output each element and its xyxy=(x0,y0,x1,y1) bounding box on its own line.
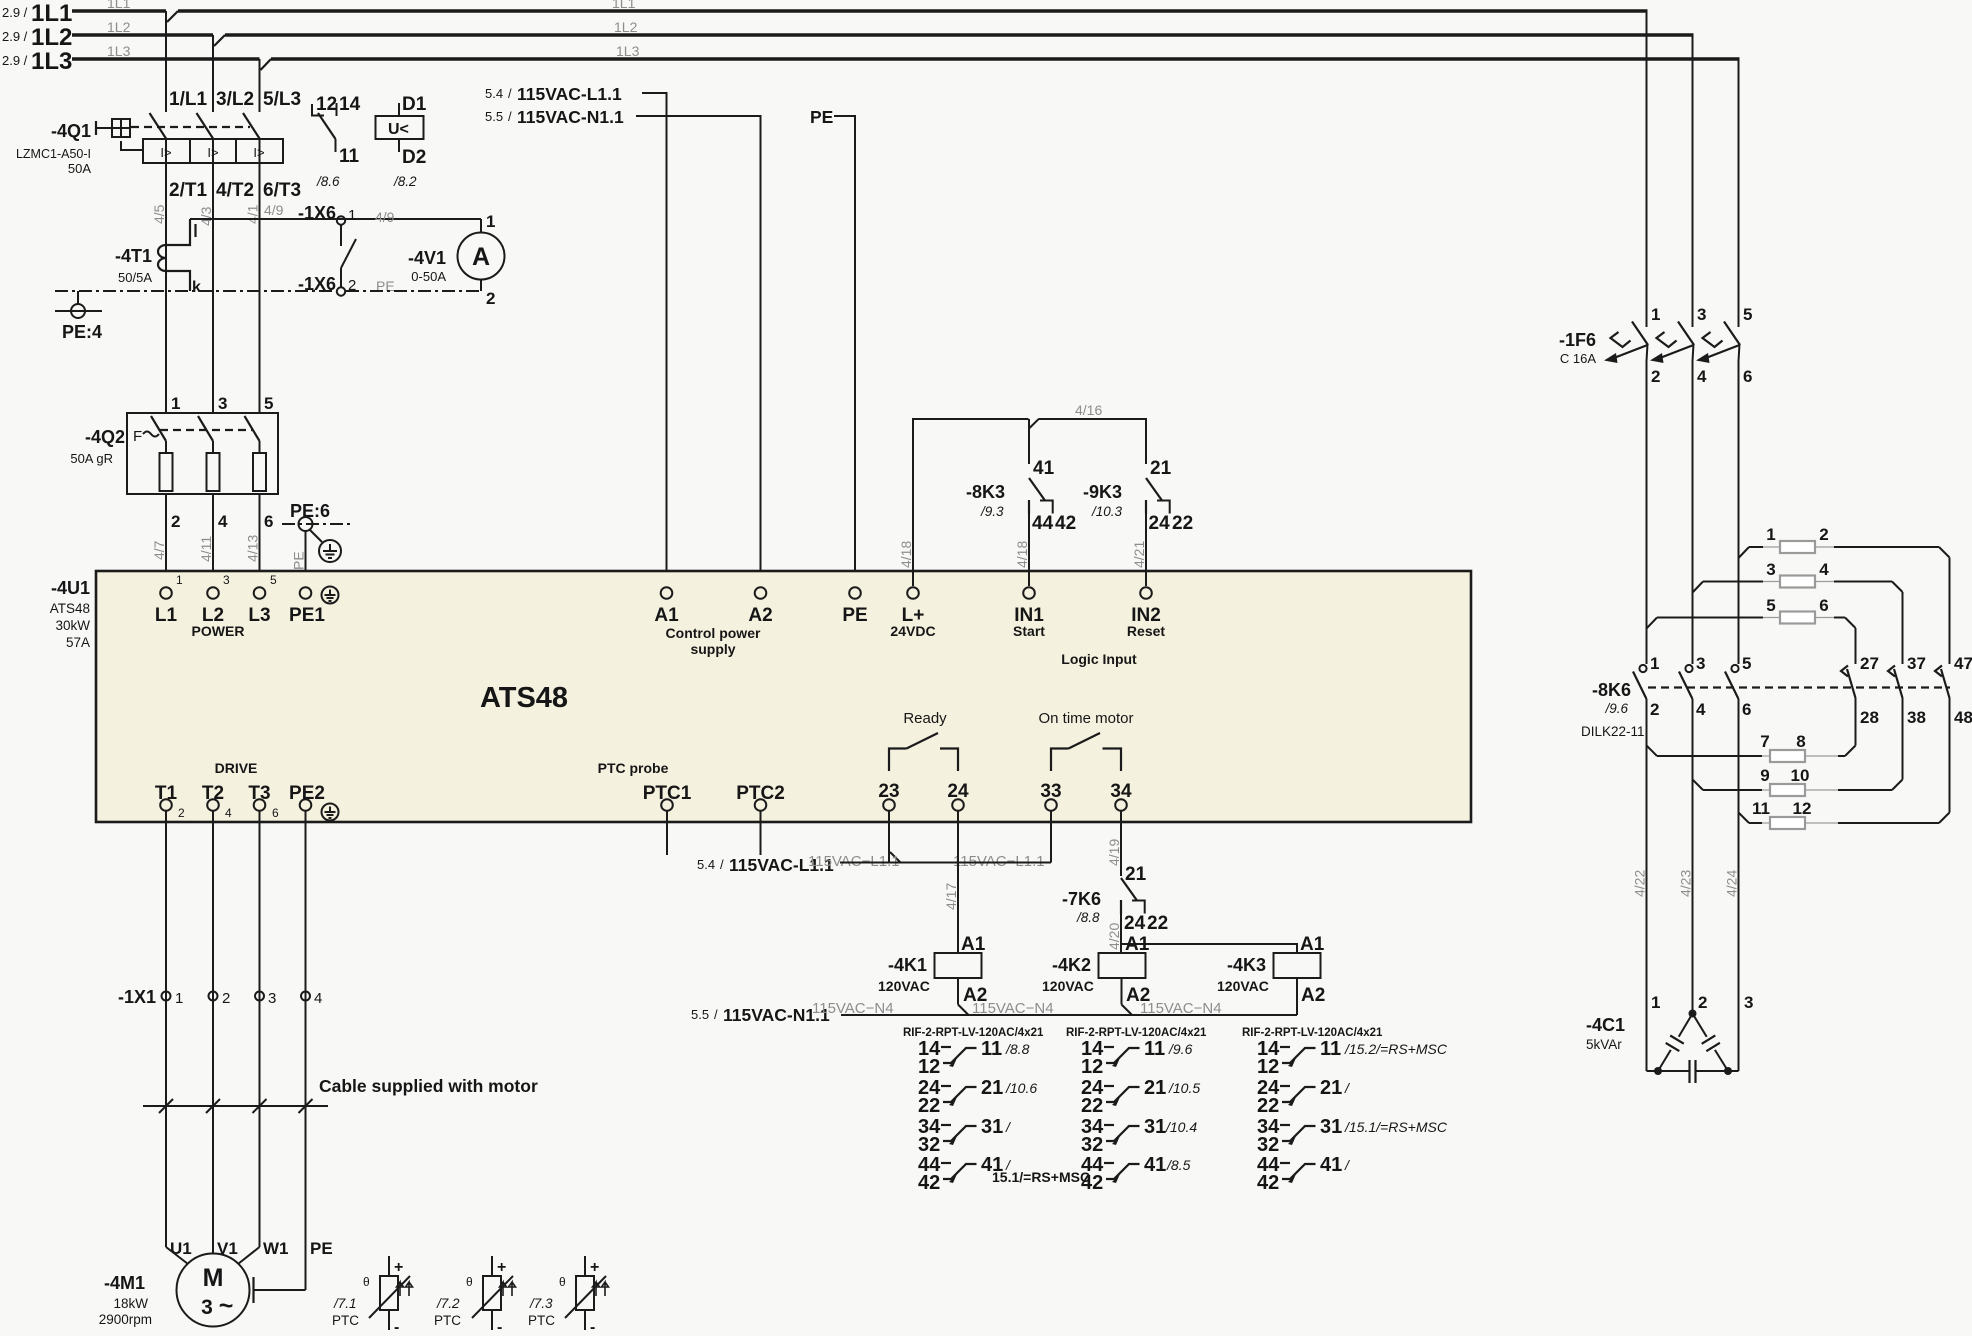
svg-text:supply: supply xyxy=(690,641,735,657)
svg-text:4/19: 4/19 xyxy=(1106,839,1122,866)
svg-text:4: 4 xyxy=(1819,560,1829,579)
svg-text:2900rpm: 2900rpm xyxy=(99,1312,152,1327)
svg-text:PE2: PE2 xyxy=(289,783,325,804)
breaker -4Q1 mechanical link xyxy=(131,126,250,128)
svg-text:21: 21 xyxy=(1144,1077,1166,1099)
wire T1 down from -4Q1 xyxy=(165,163,167,413)
svg-text:C 16A: C 16A xyxy=(1560,351,1596,366)
svg-text:F: F xyxy=(133,428,142,445)
svg-text:A2: A2 xyxy=(748,605,772,626)
svg-text:Start: Start xyxy=(1013,623,1045,639)
contact table -4K3 xyxy=(1242,1027,1448,1194)
svg-text:-4U1: -4U1 xyxy=(51,578,90,598)
relay contact On time motor xyxy=(1038,710,1133,771)
terminal PE2 xyxy=(289,783,338,821)
ammeter -4V1 xyxy=(408,212,505,308)
contactor -8K6 label xyxy=(1581,680,1645,739)
svg-text:12: 12 xyxy=(316,94,337,115)
svg-text:50A gR: 50A gR xyxy=(70,451,113,466)
svg-text:22: 22 xyxy=(918,1095,940,1117)
svg-text:PE: PE xyxy=(810,107,833,127)
svg-text:12: 12 xyxy=(1081,1056,1103,1078)
svg-text:k: k xyxy=(192,279,201,296)
svg-text:1: 1 xyxy=(1651,993,1660,1012)
svg-text:3: 3 xyxy=(268,990,276,1007)
svg-text:L1: L1 xyxy=(155,605,178,626)
svg-text:-4K1: -4K1 xyxy=(888,955,927,975)
wire 115VAC-L1.1 to A1 xyxy=(642,93,667,586)
svg-text:-8K3: -8K3 xyxy=(966,482,1005,502)
svg-text:44: 44 xyxy=(1032,513,1054,534)
terminal 23 xyxy=(878,781,899,811)
svg-text:120VAC: 120VAC xyxy=(1217,978,1269,994)
svg-text:-: - xyxy=(497,1319,502,1336)
breaker -1F6 pole 2 xyxy=(1650,305,1707,386)
terminal L+ xyxy=(890,587,935,639)
svg-text:1L3: 1L3 xyxy=(31,48,72,75)
svg-text:Logic Input: Logic Input xyxy=(1061,651,1137,667)
ground PE:4 xyxy=(55,291,102,342)
wire T2 down from -4Q1 xyxy=(212,163,214,413)
svg-text:3: 3 xyxy=(201,1296,213,1319)
label Control power supply xyxy=(666,625,761,657)
relay coil -4K1 xyxy=(878,934,987,1015)
svg-text:2: 2 xyxy=(1651,367,1660,386)
svg-text:A1: A1 xyxy=(1125,934,1150,955)
svg-text:/: / xyxy=(508,86,512,101)
wire to contact 37 xyxy=(1902,592,1904,664)
svg-text:5.4: 5.4 xyxy=(485,86,503,101)
fuse -4Q2 pole 1 xyxy=(151,416,173,491)
pin labels -4Q2 top 1 3 5 xyxy=(171,394,273,413)
wire 4/9 CT secondary to ammeter xyxy=(190,218,481,220)
svg-text:Ready: Ready xyxy=(903,710,947,727)
svg-text:2: 2 xyxy=(222,990,230,1007)
svg-text:D1: D1 xyxy=(402,94,427,115)
svg-text:47: 47 xyxy=(1954,654,1972,673)
relay coil -4K2 xyxy=(1042,934,1150,1015)
contact table -4K2 xyxy=(1066,1027,1207,1194)
svg-text:11: 11 xyxy=(1752,799,1770,818)
svg-text:4/3: 4/3 xyxy=(198,206,214,226)
svg-text:PTC: PTC xyxy=(528,1313,555,1328)
motor -4M1 xyxy=(99,1239,333,1327)
terminal 24 xyxy=(947,781,969,811)
svg-text:2: 2 xyxy=(171,512,180,531)
svg-text:-4Q1: -4Q1 xyxy=(51,121,91,141)
contact -8K3 xyxy=(966,419,1076,586)
wire branch to -4K3 A1 xyxy=(1121,944,1297,953)
svg-text:1L1: 1L1 xyxy=(612,0,636,11)
svg-text:9: 9 xyxy=(1760,766,1769,785)
svg-text:4/24: 4/24 xyxy=(1724,870,1740,897)
svg-text:PTC: PTC xyxy=(434,1313,461,1328)
svg-text:14: 14 xyxy=(339,94,361,115)
svg-text:18kW: 18kW xyxy=(113,1296,148,1311)
svg-text:2: 2 xyxy=(1650,700,1659,719)
terminal L2 xyxy=(202,573,230,626)
terminal PTC1 xyxy=(643,783,692,855)
svg-text:PE: PE xyxy=(310,1239,333,1258)
wire -8K6:6 down to capacitor xyxy=(1738,699,1740,1071)
svg-text:38: 38 xyxy=(1907,708,1926,727)
wire PE2 to motor xyxy=(305,811,307,1290)
svg-text:8: 8 xyxy=(1796,732,1805,751)
svg-text:1: 1 xyxy=(348,207,356,224)
svg-text:42: 42 xyxy=(1257,1172,1279,1194)
svg-text:-: - xyxy=(590,1319,595,1336)
wire T3 down from -4Q1 xyxy=(259,163,261,413)
svg-text:PTC2: PTC2 xyxy=(736,783,785,804)
svg-text:12: 12 xyxy=(1793,799,1812,818)
terminal -1X6 pin 1 xyxy=(298,203,395,225)
svg-text:10: 10 xyxy=(1791,766,1810,785)
svg-text:/7.2: /7.2 xyxy=(436,1296,460,1311)
wire to contact 27 xyxy=(1855,628,1857,664)
terminal -1X6 pin 2 xyxy=(298,274,395,296)
contactor -8K6 pole 37-38 xyxy=(1888,654,1926,727)
wire feeder drop 2 xyxy=(1692,35,1694,327)
svg-text:θ: θ xyxy=(363,1275,370,1289)
svg-text:T3: T3 xyxy=(248,783,270,804)
svg-text:6: 6 xyxy=(272,806,279,820)
circuit breaker Q1 label xyxy=(16,121,91,176)
terminal L1 xyxy=(155,573,183,626)
svg-text:31: 31 xyxy=(981,1116,1003,1138)
soft starter -4U1 ATS48 box xyxy=(96,571,1471,822)
contactor -8K6 pole 1-2 xyxy=(1633,654,1659,719)
svg-text:PE: PE xyxy=(842,605,867,626)
svg-text:6: 6 xyxy=(264,512,273,531)
svg-text:42: 42 xyxy=(1081,1172,1103,1194)
resistor R9-10 xyxy=(1693,698,1903,796)
svg-text:PTC: PTC xyxy=(332,1313,359,1328)
contact -7K6 xyxy=(1062,864,1168,934)
wire PE dash-dot xyxy=(55,290,481,292)
svg-text:5.4: 5.4 xyxy=(697,857,715,872)
svg-text:4/18: 4/18 xyxy=(898,541,914,568)
svg-text:-4K2: -4K2 xyxy=(1052,955,1091,975)
svg-text:32: 32 xyxy=(1257,1134,1279,1156)
terminal strip -1X1 xyxy=(118,987,322,1007)
net 115VAC-L1.1 lower xyxy=(697,853,1045,875)
svg-text:3: 3 xyxy=(1766,560,1775,579)
relay coil -4K3 xyxy=(1217,934,1325,1015)
terminal 33 xyxy=(1040,781,1061,811)
svg-text:/7.1: /7.1 xyxy=(333,1296,357,1311)
svg-text:120VAC: 120VAC xyxy=(878,978,930,994)
svg-text:2.9 /: 2.9 / xyxy=(2,29,28,44)
svg-text:31: 31 xyxy=(1320,1116,1342,1138)
wire T2 to motor xyxy=(212,811,214,1253)
svg-text:4/17: 4/17 xyxy=(943,883,959,910)
switch -1X6 blade xyxy=(341,225,356,287)
svg-text:1: 1 xyxy=(176,573,183,587)
wire bus 1L3 xyxy=(72,59,1740,70)
svg-text:21: 21 xyxy=(1150,458,1172,479)
breaker -1F6 pole 3 xyxy=(1696,305,1752,386)
svg-text:2: 2 xyxy=(1698,993,1707,1012)
current transformer -4T1 xyxy=(115,219,201,296)
svg-text:I>: I> xyxy=(160,145,171,160)
svg-text:A: A xyxy=(472,243,490,271)
relay contact Ready xyxy=(889,710,958,771)
svg-text:PE: PE xyxy=(291,551,307,570)
svg-text:4/18: 4/18 xyxy=(1014,541,1030,568)
svg-text:41: 41 xyxy=(1144,1154,1166,1176)
svg-text:32: 32 xyxy=(918,1134,940,1156)
node 1L2 source label xyxy=(2,19,638,51)
svg-text:3: 3 xyxy=(218,394,227,413)
wire -1F6:2 down xyxy=(1646,361,1648,664)
wire L1 to ATS48 xyxy=(165,494,167,586)
svg-text:24: 24 xyxy=(1149,513,1171,534)
ground PE:6 xyxy=(282,501,353,562)
svg-text:5: 5 xyxy=(1742,654,1751,673)
svg-text:-: - xyxy=(394,1319,399,1336)
svg-text:/8.6: /8.6 xyxy=(316,174,340,189)
svg-text:5.5: 5.5 xyxy=(691,1007,709,1022)
terminal A2 xyxy=(748,587,772,626)
svg-text:5: 5 xyxy=(1766,596,1775,615)
svg-text:6/T3: 6/T3 xyxy=(263,180,301,201)
svg-text:4/21: 4/21 xyxy=(1131,541,1147,568)
svg-text:ATS48: ATS48 xyxy=(480,682,568,714)
fuse -4Q2 link dashes xyxy=(160,429,252,431)
svg-text:4/13: 4/13 xyxy=(245,535,261,562)
svg-text:5: 5 xyxy=(264,394,273,413)
terminal IN2 xyxy=(1127,587,1165,639)
svg-text:θ: θ xyxy=(466,1275,473,1289)
svg-text:5.5: 5.5 xyxy=(485,109,503,124)
svg-text:4/1: 4/1 xyxy=(245,204,261,224)
wire T1 to motor xyxy=(165,811,167,1247)
svg-text:L3: L3 xyxy=(248,605,270,626)
svg-text:4: 4 xyxy=(1697,367,1707,386)
svg-text:22: 22 xyxy=(1081,1095,1103,1117)
svg-text:12: 12 xyxy=(918,1056,940,1078)
svg-text:U1: U1 xyxy=(170,1239,192,1258)
svg-text:11: 11 xyxy=(339,146,360,167)
svg-text:/8.5: /8.5 xyxy=(1166,1157,1191,1173)
svg-text:31: 31 xyxy=(1144,1116,1166,1138)
wire drop L1 to -4Q1 xyxy=(165,11,167,112)
svg-text:3: 3 xyxy=(1696,654,1705,673)
svg-text:22: 22 xyxy=(1257,1095,1279,1117)
svg-text:1L2: 1L2 xyxy=(31,24,72,51)
svg-text:A2: A2 xyxy=(1301,985,1325,1006)
svg-text:-1X1: -1X1 xyxy=(118,987,156,1007)
svg-text:PE1: PE1 xyxy=(289,605,325,626)
svg-text:+: + xyxy=(394,1259,403,1276)
terminal 34 xyxy=(1110,781,1132,811)
wire 115VAC-N1.1 lower xyxy=(841,1014,1297,1016)
svg-text:I>: I> xyxy=(253,145,264,160)
svg-text:-4C1: -4C1 xyxy=(1586,1015,1625,1035)
svg-text:/15.1/=RS+MSC: /15.1/=RS+MSC xyxy=(1344,1119,1448,1135)
svg-text:DILK22-11: DILK22-11 xyxy=(1581,724,1645,739)
cable marker xyxy=(143,1099,328,1113)
svg-text:30kW: 30kW xyxy=(55,618,90,633)
svg-text:2.9 /: 2.9 / xyxy=(2,5,28,20)
svg-text:1: 1 xyxy=(1766,525,1775,544)
svg-text:21: 21 xyxy=(1125,864,1147,885)
svg-text:Reset: Reset xyxy=(1127,623,1165,639)
svg-text:57A: 57A xyxy=(66,635,90,650)
svg-text:U<: U< xyxy=(388,121,409,138)
svg-text:-4Q2: -4Q2 xyxy=(85,427,125,447)
svg-text:/8.8: /8.8 xyxy=(1005,1041,1030,1057)
svg-text:/: / xyxy=(720,857,724,872)
svg-text:A1: A1 xyxy=(654,605,679,626)
aux contact -4Q1 12/14/11 xyxy=(312,94,361,189)
svg-text:-4K3: -4K3 xyxy=(1227,955,1266,975)
node 1L3 source label xyxy=(2,43,640,75)
svg-text:48: 48 xyxy=(1954,708,1972,727)
svg-text:2: 2 xyxy=(1819,525,1828,544)
svg-text:1L1: 1L1 xyxy=(31,0,72,27)
wire -7K6 to coil -4K2 xyxy=(1120,914,1122,953)
capacitor -4C1 labels xyxy=(1586,993,1753,1052)
svg-text:/15.2/=RS+MSC: /15.2/=RS+MSC xyxy=(1344,1041,1448,1057)
svg-text:120VAC: 120VAC xyxy=(1042,978,1094,994)
PTC probe 2 xyxy=(434,1256,516,1336)
svg-text:41: 41 xyxy=(1033,458,1055,479)
svg-text:4: 4 xyxy=(314,990,322,1007)
svg-text:12: 12 xyxy=(1257,1056,1279,1078)
svg-text:37: 37 xyxy=(1907,654,1926,673)
breaker -4Q1 pole 2 blade xyxy=(197,113,214,139)
svg-text:/9.6: /9.6 xyxy=(1604,701,1628,716)
svg-text:1: 1 xyxy=(1650,654,1659,673)
terminal T2 xyxy=(202,783,232,820)
undervoltage release U< D1/D2 xyxy=(376,94,427,189)
breaker -1F6 label xyxy=(1559,330,1596,366)
resistor R5-6 xyxy=(1647,596,1856,629)
wire 115VAC-N1.1 to A2 xyxy=(636,116,761,586)
wire bus 1L2 xyxy=(72,35,1694,46)
svg-text:A1: A1 xyxy=(961,934,986,955)
capacitor -4C1 delta xyxy=(1647,1010,1739,1084)
terminal T3 xyxy=(248,783,279,820)
svg-text:4/20: 4/20 xyxy=(1106,923,1122,950)
contactor -8K6 pole 3-4 xyxy=(1679,654,1706,719)
svg-text:11: 11 xyxy=(1320,1038,1341,1060)
svg-text:1: 1 xyxy=(1651,305,1660,324)
svg-text:4/9: 4/9 xyxy=(264,202,284,218)
svg-text:3: 3 xyxy=(223,573,230,587)
svg-text:/9.3: /9.3 xyxy=(980,504,1004,519)
svg-text:/10.5: /10.5 xyxy=(1168,1080,1200,1096)
svg-text:41: 41 xyxy=(1320,1154,1342,1176)
wire junction hop at IN1 xyxy=(1030,419,1040,428)
resistor R11-12 xyxy=(1739,698,1950,829)
terminal PTC2 xyxy=(736,783,785,855)
PTC probe 1 xyxy=(332,1256,413,1336)
svg-text:4: 4 xyxy=(218,512,228,531)
svg-text:2: 2 xyxy=(486,289,495,308)
svg-text:D2: D2 xyxy=(402,147,426,168)
svg-text:/: / xyxy=(508,109,512,124)
svg-text:5: 5 xyxy=(1743,305,1752,324)
svg-text:On time motor: On time motor xyxy=(1038,710,1133,727)
wire 23 down to 115VAC-L1.1 xyxy=(888,811,890,863)
svg-text:11: 11 xyxy=(1144,1038,1165,1060)
pin labels -4Q2 bottom 2 4 6 xyxy=(171,512,273,531)
svg-text:4/11: 4/11 xyxy=(198,536,214,562)
svg-text:7: 7 xyxy=(1760,732,1769,751)
wire PE to PE1 xyxy=(305,531,307,586)
svg-text:/9.6: /9.6 xyxy=(1168,1041,1193,1057)
svg-text:4/T2: 4/T2 xyxy=(216,180,254,201)
svg-text:4/23: 4/23 xyxy=(1678,870,1694,897)
svg-text:1L3: 1L3 xyxy=(616,43,640,59)
net 115VAC-L1.1 top xyxy=(485,84,622,104)
svg-text:-7K6: -7K6 xyxy=(1062,889,1101,909)
breaker -4Q1 pole 1 blade xyxy=(150,113,167,139)
resistor R7-8 xyxy=(1647,698,1856,762)
svg-text:4: 4 xyxy=(225,806,232,820)
svg-text:28: 28 xyxy=(1860,708,1879,727)
svg-text:M: M xyxy=(203,1264,224,1292)
device tag -4U1 xyxy=(50,578,91,650)
svg-text:PTC probe: PTC probe xyxy=(598,760,669,776)
svg-text:42: 42 xyxy=(918,1172,940,1194)
svg-text:1: 1 xyxy=(175,990,183,1007)
wire L+ up and over xyxy=(913,419,1029,586)
svg-text:+: + xyxy=(497,1259,506,1276)
node 1L1 source label xyxy=(2,0,636,27)
svg-text:22: 22 xyxy=(1172,513,1193,534)
svg-text:11: 11 xyxy=(981,1038,1002,1060)
svg-text:/10.4: /10.4 xyxy=(1165,1119,1197,1135)
svg-text:4: 4 xyxy=(1696,700,1706,719)
svg-text:Cable supplied with motor: Cable supplied with motor xyxy=(319,1076,538,1096)
svg-text:2.9 /: 2.9 / xyxy=(2,53,28,68)
svg-text:I>: I> xyxy=(207,145,218,160)
svg-text:~: ~ xyxy=(219,1292,234,1320)
breaker -4Q1 trip unit I> xyxy=(143,139,283,163)
svg-text:4/22: 4/22 xyxy=(1632,870,1648,897)
svg-text:22: 22 xyxy=(1147,913,1168,934)
breaker -4Q1 actuator xyxy=(96,119,143,150)
svg-text:24: 24 xyxy=(1124,913,1146,934)
svg-text:-8K6: -8K6 xyxy=(1592,680,1631,700)
wire T3 to motor xyxy=(259,811,261,1247)
svg-text:32: 32 xyxy=(1081,1134,1103,1156)
svg-text:5kVAr: 5kVAr xyxy=(1586,1037,1622,1052)
svg-text:-4V1: -4V1 xyxy=(408,248,446,268)
svg-text:POWER: POWER xyxy=(192,623,245,639)
svg-text:4/9: 4/9 xyxy=(375,209,395,225)
svg-text:θ: θ xyxy=(559,1275,566,1289)
wire feeder drop 1 xyxy=(1646,11,1648,327)
svg-text:PE:4: PE:4 xyxy=(62,322,102,342)
svg-text:/8.2: /8.2 xyxy=(393,174,417,189)
terminal A1 xyxy=(654,587,679,626)
svg-text:PTC1: PTC1 xyxy=(643,783,692,804)
wire 34 down to -7K6 xyxy=(1120,811,1122,876)
net 115VAC-N1.1 lower xyxy=(691,1000,1222,1025)
PTC probe 3 xyxy=(528,1256,609,1336)
wire -8K6:4 down to capacitor xyxy=(1692,699,1694,1010)
svg-text:115VAC-N1.1: 115VAC-N1.1 xyxy=(517,107,624,127)
svg-text:1L1: 1L1 xyxy=(107,0,131,11)
svg-text:-4T1: -4T1 xyxy=(115,246,152,266)
wire drop L2 to -4Q1 xyxy=(212,35,214,112)
svg-text:T1: T1 xyxy=(155,783,178,804)
svg-text:1L3: 1L3 xyxy=(107,43,131,59)
